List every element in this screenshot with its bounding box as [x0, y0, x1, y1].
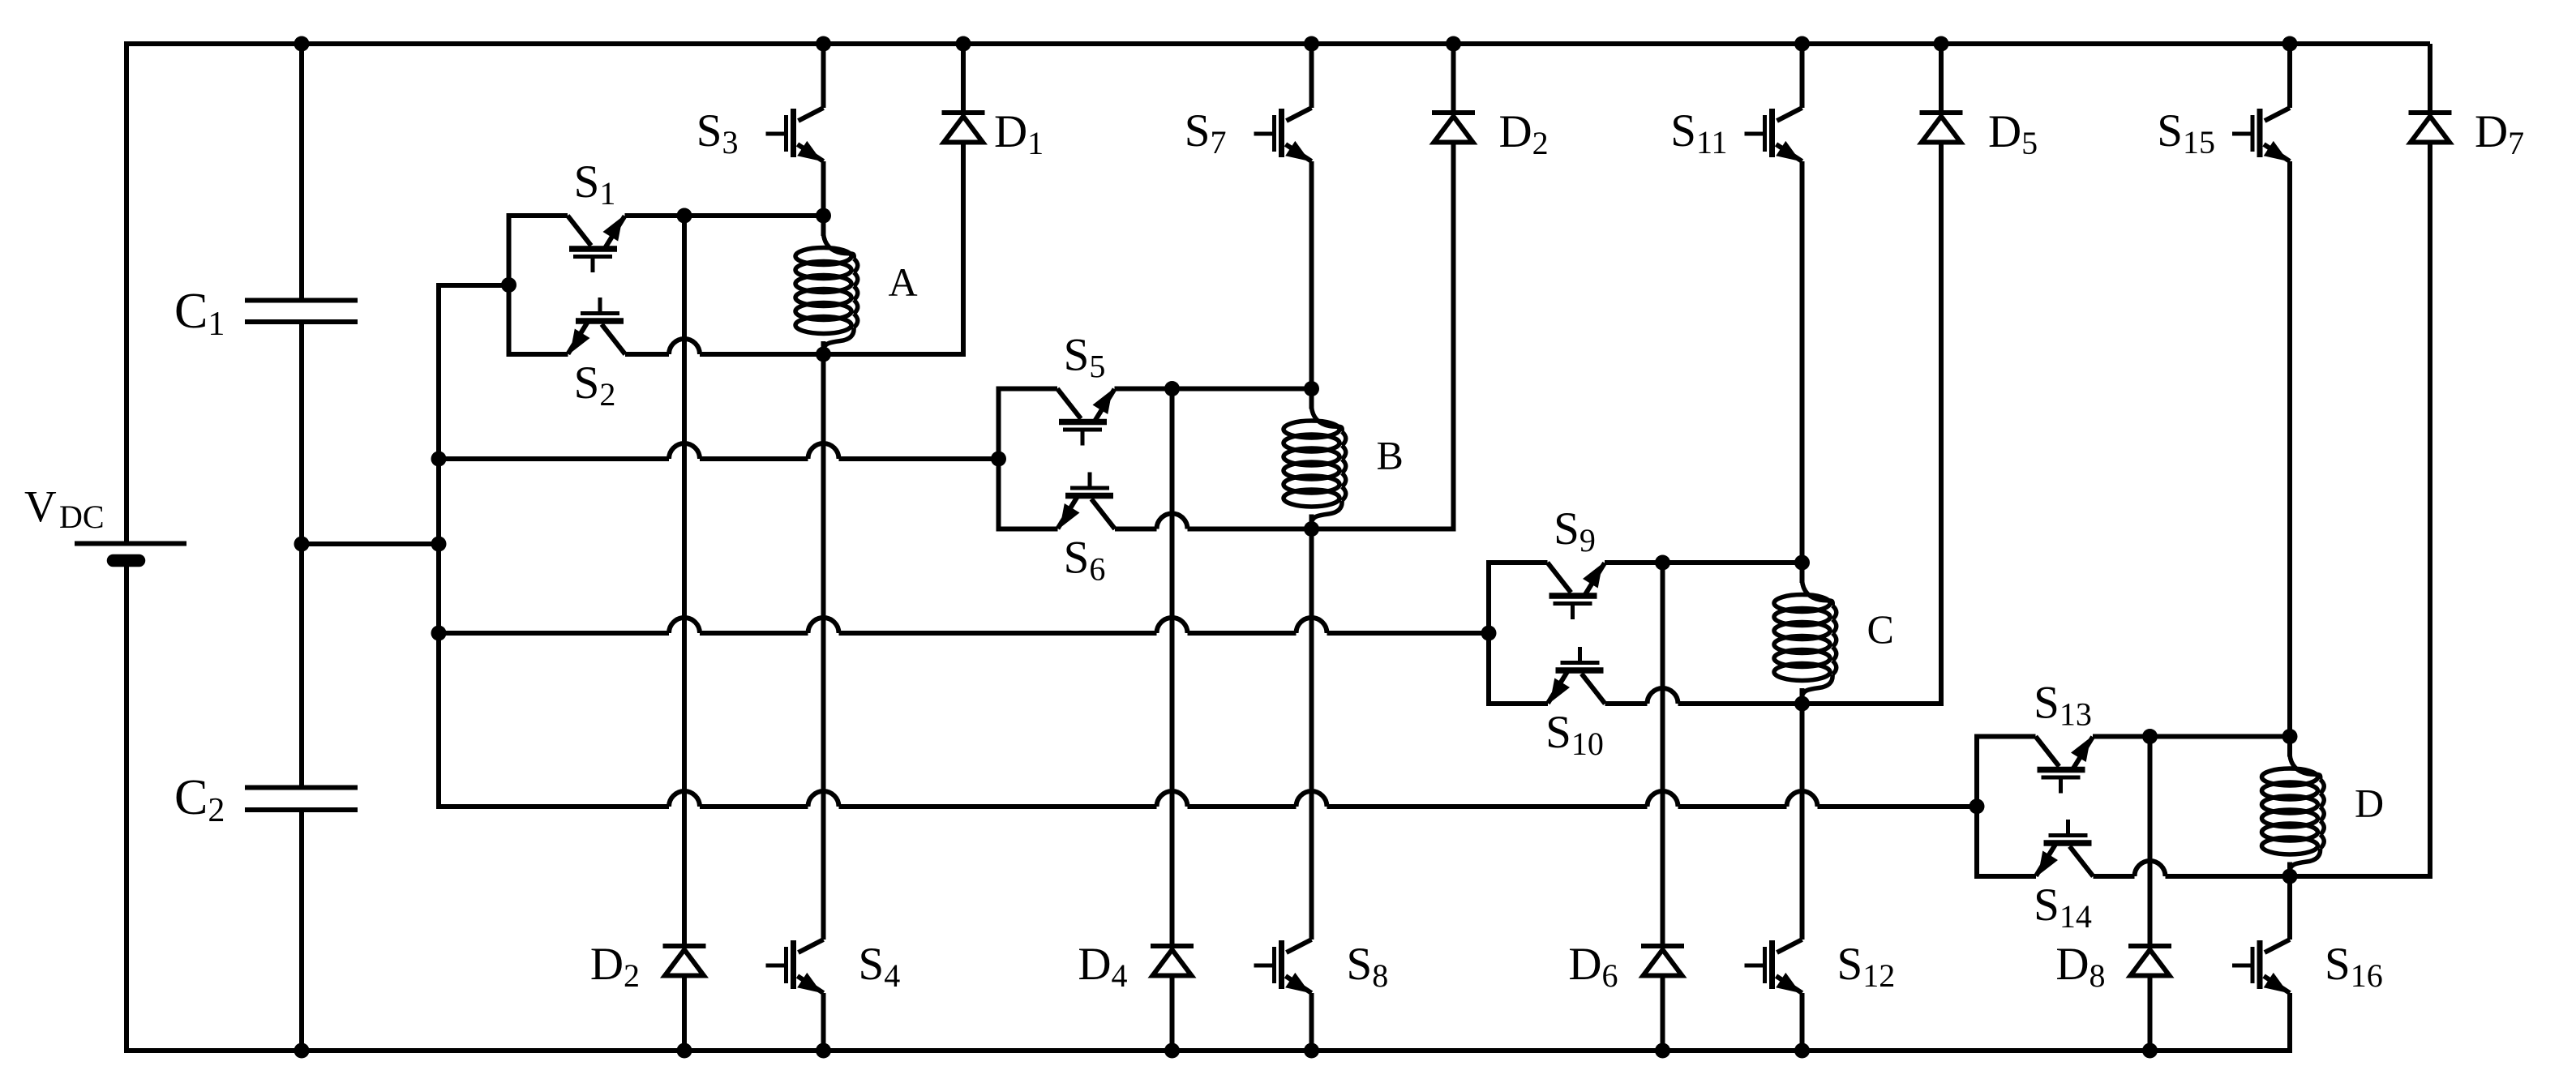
svg-text:B: B	[1377, 433, 1404, 478]
svg-text:D: D	[2355, 781, 2384, 826]
svg-text:A: A	[889, 259, 918, 305]
svg-text:C: C	[1867, 606, 1894, 652]
svg-text:V: V	[24, 482, 57, 531]
svg-text:DC: DC	[59, 499, 105, 535]
